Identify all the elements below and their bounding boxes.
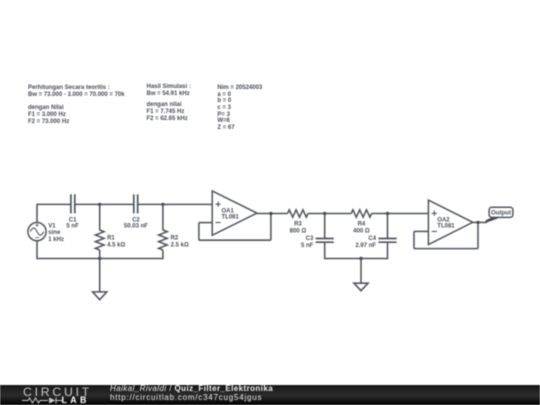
svg-text:2.97 nF: 2.97 nF [355,243,376,249]
node junction at C1/C2/R1 [98,203,101,206]
footer title [110,384,273,393]
resistor R4 [351,210,371,235]
node junction OA1 output [269,212,272,215]
svg-text:V1: V1 [48,223,56,229]
capacitor C3 [301,214,334,260]
op-amp OA1 [212,191,257,235]
svg-text:C2: C2 [132,218,140,224]
resistor R3 [288,210,308,235]
node junction bottom at R1 [98,257,101,260]
wire OA1 feedback right vertical [270,214,272,241]
node junction R3/C3 [323,212,326,215]
resistor R2 [159,204,189,259]
svg-text:R1: R1 [107,236,115,242]
svg-text:TL081: TL081 [222,215,240,221]
wire OA2 feedback left vertical [413,231,415,248]
node junction at C2/R2 [161,203,164,206]
wire C1 to C2 [75,203,133,205]
wire V1 bottom lead [36,241,38,260]
wire C2 to OA1 + input [138,203,212,205]
wire OA2 feedback bottom [414,248,478,250]
capacitor C1 [66,194,79,229]
footer url [110,393,262,402]
wire OA1 feedback - input stub [199,222,212,224]
capacitor C4 [355,214,396,260]
ground right [354,259,368,291]
node junction OA2 output [476,221,479,224]
wire R4 to OA2 + input [372,213,429,215]
wire OA1 feedback left vertical [198,223,200,241]
svg-text:TL081: TL081 [437,224,455,230]
footer logo schematic line [22,396,68,405]
svg-text:50.03 nF: 50.03 nF [124,224,148,230]
wire bottom left net [37,258,163,260]
note: perhitungan teoritis [28,85,125,126]
svg-text:C4: C4 [368,236,376,242]
node junction R4/C4 [386,212,389,215]
svg-text:R3: R3 [294,221,302,227]
wire V1 top lead [36,204,38,223]
svg-text:Output: Output [491,210,511,217]
capacitor C2 [124,194,148,229]
output flag [485,207,513,223]
note: hasil simulasi [147,84,191,98]
wire OA2 feedback right vertical [477,222,479,248]
svg-text:4.5 kΩ: 4.5 kΩ [107,242,125,248]
svg-text:R2: R2 [171,236,179,242]
svg-text:R4: R4 [358,221,366,227]
footer logo LAB [62,395,90,405]
svg-text:1 kHz: 1 kHz [48,237,64,243]
note: nim [217,85,262,131]
svg-text:400 Ω: 400 Ω [353,228,370,234]
svg-text:800 Ω: 800 Ω [290,228,307,234]
svg-text:2.5 kΩ: 2.5 kΩ [171,242,189,248]
wire OA2 output [472,221,487,223]
wire OA2 feedback - input stub [414,230,428,232]
footer bar [0,385,540,405]
svg-text:sine: sine [48,230,61,236]
voltage source V1 [28,223,64,243]
svg-text:C3: C3 [306,236,314,242]
wire OA1 output to R3 [257,213,288,215]
wire OA1 feedback bottom [199,239,271,241]
footer logo CIRCUIT [23,385,92,399]
wire R3 to R4 [308,213,351,215]
svg-text:C1: C1 [69,218,77,224]
node junction bottom right [359,257,362,260]
svg-text:5 nF: 5 nF [301,243,314,249]
svg-text:5 nF: 5 nF [66,224,79,230]
resistor R1 [95,204,125,259]
wire bottom right net [325,258,388,260]
wire top segment V1 to C1 [37,203,71,205]
ground left [93,259,107,300]
op-amp OA2 [428,200,472,244]
